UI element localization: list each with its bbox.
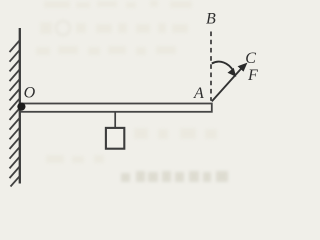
svg-text:C: C — [245, 50, 256, 67]
faint bleed-through text (decorative) — [36, 0, 217, 163]
paper background — [0, 0, 265, 189]
beam OA — [20, 104, 212, 112]
hinge pin at O — [17, 103, 25, 111]
svg-text:F: F — [247, 67, 258, 84]
wall hatching — [10, 41, 20, 187]
svg-text:A: A — [193, 85, 204, 102]
dashed line AB — [210, 32, 212, 101]
angle arc C — [212, 62, 234, 72]
string — [114, 112, 116, 127]
svg-text:O: O — [24, 85, 36, 102]
force arrow F — [212, 68, 242, 102]
wall (vertical line) — [19, 28, 21, 184]
svg-text:B: B — [206, 10, 216, 27]
weight block — [106, 128, 124, 149]
